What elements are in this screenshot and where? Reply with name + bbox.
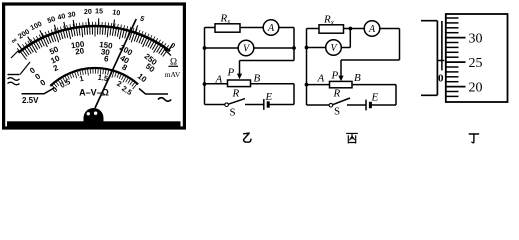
svg-text:25: 25 <box>469 56 483 71</box>
ohm scale main arc <box>18 26 170 53</box>
wire: voltmeter row <box>307 47 326 49</box>
caption BING (drawn glyph) <box>347 133 358 143</box>
battery E <box>365 100 367 111</box>
svg-text:2.5V: 2.5V <box>22 96 39 105</box>
AC tilde symbol <box>158 98 171 102</box>
circuit YI group <box>203 13 296 119</box>
svg-text:B: B <box>354 72 361 84</box>
wire: right vertical lower <box>395 85 397 105</box>
svg-text:B: B <box>254 73 261 85</box>
voltmeter V <box>238 40 254 56</box>
svg-text:mAV: mAV <box>165 70 181 79</box>
wire: voltmeter row <box>205 47 239 49</box>
svg-text:Rx: Rx <box>323 14 335 27</box>
wire: right vertical lower <box>293 84 295 105</box>
svg-text:E: E <box>265 91 273 103</box>
wire: slider P horizontal <box>341 59 400 61</box>
svg-text:20: 20 <box>469 80 483 95</box>
caption DING (drawn glyph) <box>469 134 478 143</box>
wire rheostat right <box>251 83 295 85</box>
svg-text:Rx: Rx <box>220 13 232 26</box>
needle pivot dome <box>84 108 104 122</box>
ohm scale numbers <box>9 7 176 50</box>
wire: top row left <box>307 28 320 30</box>
switch blade <box>228 99 245 105</box>
svg-text:S: S <box>334 106 340 118</box>
svg-text:30: 30 <box>469 31 483 46</box>
dc scale ticks (below main arc) <box>20 27 167 60</box>
2.5V overline and diagonal <box>22 88 55 94</box>
node dot rheostat left <box>305 83 309 87</box>
dc scale numbers (three rows) <box>28 39 159 87</box>
sleeve inner edge line <box>441 21 443 61</box>
svg-text:0: 0 <box>438 72 444 84</box>
wire resistor to node <box>344 28 365 30</box>
left arc-end decoration to DC symbol <box>20 62 30 75</box>
wire: right vertical upper <box>399 29 401 61</box>
wire resistor to ammeter <box>240 27 263 29</box>
thimble scale numbers <box>469 31 483 95</box>
wire rheostat left <box>307 84 330 86</box>
ohm scale major ticks <box>18 18 174 49</box>
wire switch to battery <box>347 104 366 106</box>
right 2.5V arc end decoration <box>139 89 168 95</box>
svg-text:A: A <box>368 24 376 35</box>
2.5V scale ticks <box>52 69 136 90</box>
svg-text:P: P <box>227 67 235 79</box>
right ohm end stroke <box>164 49 171 56</box>
2.5V scale numbers <box>50 73 134 97</box>
wire: right vertical upper <box>293 28 295 61</box>
rheostat R box <box>228 80 251 87</box>
wire switch to battery <box>245 104 264 106</box>
svg-text:R: R <box>232 88 240 100</box>
ohm scale minor ticks <box>17 22 171 51</box>
svg-text:S: S <box>230 107 236 119</box>
meter outer border <box>4 4 185 128</box>
wire: slider P vertical with arrow <box>239 61 241 75</box>
wire ammeter to right <box>279 27 294 29</box>
switch S pivot circle <box>225 103 229 107</box>
wire rheostat right <box>352 84 396 86</box>
ammeter A <box>364 21 380 37</box>
node dot left V junction <box>305 46 309 50</box>
wire: top row <box>205 27 216 29</box>
svg-text:15: 15 <box>95 7 103 15</box>
main scale zero tick <box>437 60 445 62</box>
wire battery to right <box>268 104 294 106</box>
svg-text:20: 20 <box>75 46 86 56</box>
switch blade <box>333 98 350 105</box>
wire: bottom row left <box>307 104 330 106</box>
DC/AC symbol left <box>8 75 20 85</box>
svg-text:A: A <box>267 23 275 34</box>
node dot left V junction <box>203 46 207 50</box>
battery E <box>263 99 265 110</box>
resistor Rx <box>215 24 240 32</box>
svg-text:A: A <box>317 73 325 85</box>
wire: slider P horizontal <box>240 60 295 62</box>
2.5V scale arc <box>50 68 138 86</box>
rheostat R box <box>330 81 353 87</box>
wire rheostat left <box>205 83 228 85</box>
wire: bottom row left <box>205 104 226 106</box>
svg-text:20: 20 <box>84 8 92 16</box>
switch S pivot circle <box>329 103 333 107</box>
svg-text:10: 10 <box>112 8 121 17</box>
wire voltmeter to riser <box>341 47 350 49</box>
node dot rheostat left <box>203 82 207 86</box>
meter needle <box>95 19 136 108</box>
sleeve bracket outline <box>421 21 437 96</box>
svg-text:30: 30 <box>67 10 76 19</box>
wire: left vertical <box>204 28 206 105</box>
svg-text:E: E <box>371 92 379 104</box>
caption YI (drawn glyph) <box>244 133 252 142</box>
wire: voltmeter riser up to node <box>349 29 351 48</box>
wire: left vertical <box>306 29 308 106</box>
multimeter face panel <box>4 4 185 128</box>
resistor Rx <box>319 25 344 33</box>
thimble ticks <box>446 18 466 96</box>
node dot right V junction <box>292 46 296 50</box>
wire voltmeter to right <box>254 47 294 49</box>
left ohm arc end stroke <box>11 51 19 59</box>
wire: slider P vertical with arrow <box>340 60 342 76</box>
wire ammeter to right <box>380 28 400 30</box>
svg-text:R: R <box>333 88 341 100</box>
circuit BING group <box>305 14 400 118</box>
thimble outline <box>446 14 508 102</box>
svg-text:P: P <box>331 70 339 82</box>
wire battery to right <box>370 104 396 106</box>
tick below reference line <box>441 61 443 71</box>
meter bottom black bar <box>7 121 181 126</box>
node dot after resistor <box>349 27 353 31</box>
micrometer group <box>421 21 444 96</box>
voltmeter V <box>326 40 342 56</box>
ammeter A <box>263 20 279 36</box>
